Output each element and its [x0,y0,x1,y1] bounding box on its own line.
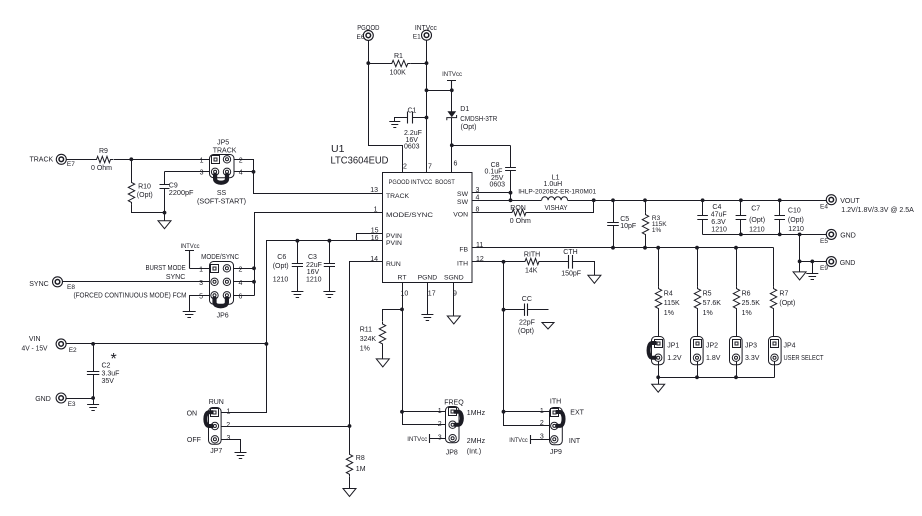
resistor R10 (Opt) [131,160,133,181]
wire VIN line [67,343,267,345]
capacitor C5 10pF [613,201,615,223]
svg-text:6: 6 [239,293,243,300]
connector JP5 TRACK 2x2 header [210,155,235,178]
junction RUN-R8-JP7 [348,424,352,428]
svg-text:D1: D1 [460,106,469,113]
svg-text:2: 2 [239,266,243,273]
svg-text:1.0uH: 1.0uH [544,181,563,188]
junction R10-C9-gnd [163,211,167,215]
wire JP5 pin2/pin4 to TRACK pin13 [235,160,383,194]
junction tap-D1 [450,88,454,92]
svg-text:SS: SS [217,190,227,197]
svg-text:PGOOD: PGOOD [357,25,379,32]
svg-text:R8: R8 [356,455,365,462]
svg-text:47uF: 47uF [711,211,727,218]
junction VOUT-C4 [701,198,705,202]
svg-text:SYNC: SYNC [166,274,185,281]
svg-text:2MHz: 2MHz [467,438,486,445]
ground triangle at SGND [447,316,460,324]
svg-text:USER SELECT: USER SELECT [784,355,825,362]
svg-text:6.3V: 6.3V [711,219,726,226]
junction VOUT-C7 [739,198,743,202]
resistor R11 324K [383,310,403,322]
turret E8 SYNC [53,277,63,287]
svg-text:1210: 1210 [711,227,727,234]
power tap INTVcc top [447,81,456,91]
wire E8 to JP6 pin3 [63,281,210,283]
svg-text:2: 2 [226,422,230,429]
wire JP1 pin2 to gnd rail [658,362,660,378]
JP6 pin6 wire [234,295,255,297]
svg-text:JP2: JP2 [706,343,718,350]
svg-text:PVIN: PVIN [386,233,402,240]
junction gnd rail C7 [739,233,743,237]
svg-text:INT: INT [569,438,581,445]
svg-text:RT: RT [398,275,407,282]
wire D1 node to C8 [452,145,511,147]
svg-text:324K: 324K [360,336,377,343]
wire E7 to R9 [67,159,95,161]
ground earth below C3 [323,292,335,298]
svg-text:VIN: VIN [29,336,41,343]
junction RT-JP8 [400,410,404,414]
wire PVIN rail [267,241,383,344]
svg-text:1210: 1210 [273,276,289,283]
JP6 shunt jumper on pins 5-6 [215,297,227,306]
resistor R1 100K [369,63,390,65]
svg-text:E6: E6 [357,34,365,41]
resistor R3 115K [645,201,647,213]
svg-text:FB: FB [459,246,468,253]
ground triangle after CC [542,323,554,330]
svg-text:E3: E3 [68,401,76,408]
wire output cap ground rail to E5 [703,234,827,236]
svg-text:(Opt): (Opt) [273,263,289,270]
svg-text:C6: C6 [277,254,286,261]
svg-text:4: 4 [239,280,243,287]
wire FB U1 pin11 rail [473,247,774,249]
ground triangle below R8 [343,489,356,497]
svg-text:R4: R4 [664,291,673,298]
junction FB-R4 [656,246,660,250]
svg-text:CMDSH-3TR: CMDSH-3TR [460,116,497,123]
junction jgnd JP1 [656,375,660,379]
junction L1-VON riser [592,198,596,202]
svg-text:0603: 0603 [404,144,420,151]
junction INTVCC-tap [425,88,429,92]
wire JP7 pin2 to RUN net [222,426,350,428]
svg-text:SW: SW [457,199,469,206]
svg-text:INTVcc: INTVcc [442,71,463,78]
svg-text:16V: 16V [307,269,320,276]
wire PGOOD net down to U1 pin2 [369,64,403,173]
ground triangle after CTH [588,275,601,283]
ground triangle below output rail [799,262,801,272]
svg-text:TRACK: TRACK [213,147,237,154]
svg-text:VON: VON [453,212,468,219]
svg-text:MODE/SYNC: MODE/SYNC [201,254,239,261]
wire JP2 pin2 to gnd rail [697,362,699,378]
svg-text:17: 17 [428,290,436,297]
svg-text:14K: 14K [525,268,538,275]
junction E3-C2 [91,396,95,400]
junction jgnd JP2 [695,375,699,379]
svg-text:35V: 35V [102,378,115,385]
JP1 shunt jumper [649,343,657,358]
svg-text:(Opt): (Opt) [461,124,477,131]
svg-text:3: 3 [540,434,544,441]
svg-text:SW: SW [457,191,469,198]
resistor R7 (Opt) [773,248,775,287]
ground earth below C6 [291,292,303,298]
svg-text:(Opt): (Opt) [788,217,804,224]
svg-text:3: 3 [438,435,442,442]
ground triangle below R10/C9 [164,213,166,221]
svg-text:(Int.): (Int.) [467,448,481,455]
svg-text:C5: C5 [620,216,629,223]
svg-text:1.2V: 1.2V [667,355,682,362]
svg-text:JP5: JP5 [217,140,229,147]
svg-text:CTH: CTH [563,249,577,256]
svg-text:CC: CC [522,296,532,303]
ground earth at C1 [389,122,400,128]
svg-text:(SOFT-START): (SOFT-START) [197,198,246,205]
connector JP4 USER SELECT header [769,337,782,365]
ground earth below C2 [93,399,95,405]
wire jumper ground rail [659,377,775,379]
svg-text:150pF: 150pF [561,271,581,278]
capacitor C3 22uF [329,241,331,264]
junction C5-FB rail [611,246,615,250]
junction jgnd JP3 [734,375,738,379]
turret E2 VIN [56,339,66,349]
wire PVIN pin15 jog [357,234,383,241]
svg-text:E8: E8 [67,284,75,291]
junction C8-SW3 [509,191,513,195]
svg-text:VISHAY: VISHAY [545,205,568,212]
svg-text:1%: 1% [652,227,662,234]
ground earth below E9 wire [812,262,814,274]
svg-text:PGOOD: PGOOD [389,179,410,186]
svg-text:C1: C1 [408,107,417,114]
junction D1-BOOST-C8 [450,143,454,147]
resistor RITH 14K [523,258,542,264]
svg-text:R5: R5 [703,291,712,298]
svg-text:GND: GND [35,396,51,403]
wire E9 gnd branch [799,235,801,262]
junction PGOOD-R1 [366,61,370,65]
svg-text:JP9: JP9 [550,449,562,456]
svg-text:GND: GND [840,233,856,240]
wire JP9 pin1 [504,411,551,413]
svg-text:JP7: JP7 [210,448,222,455]
svg-text:C10: C10 [788,207,801,214]
svg-text:4V - 15V: 4V - 15V [22,345,48,352]
svg-text:E7: E7 [67,161,75,168]
wire SGND U1 pin9 [453,283,455,317]
svg-text:E9: E9 [820,265,828,272]
resistor R4 115K [658,248,660,287]
connector JP6 MODE/SYNC 2x3 header [210,262,234,305]
JP5 shunt jumper on pins 3-4 [215,174,227,183]
svg-text:C7: C7 [751,206,760,213]
connector JP1 1.2V header [652,337,665,365]
wire JP7 pin3 to ground [222,440,241,453]
JP6 pin4 wire [234,281,255,283]
JP7 body and pins [209,408,222,445]
wire RT U1 pin10 down [402,283,404,412]
junction R3-FB rail [643,246,647,250]
svg-text:U1: U1 [331,143,345,155]
junction ITH-JP9 [502,410,506,414]
svg-text:1: 1 [199,266,203,273]
svg-text:E4: E4 [820,204,828,211]
wire RON to output node [529,201,594,213]
svg-text:1%: 1% [360,345,370,352]
junction JP6 pin2 [252,266,256,270]
wire SW pin3 [473,192,511,194]
svg-text:1210: 1210 [306,276,322,283]
svg-text:C9: C9 [169,182,178,189]
svg-text:C2: C2 [102,363,111,370]
capacitor CC 22pF (Opt) [504,309,525,311]
ground earth at JP7 pin3 [235,453,247,459]
wire JP7 pin1 to VIN riser [222,344,267,413]
svg-text:TRACK: TRACK [29,157,53,164]
junction VOUT-R3 [643,198,647,202]
ground earth at PGND [421,315,433,321]
svg-text:3: 3 [199,280,203,287]
svg-text:BURST MODE: BURST MODE [146,265,186,272]
JP7 shunt jumper pins 1-2 left [205,412,213,426]
svg-text:E2: E2 [69,347,77,354]
svg-text:VOUT: VOUT [840,198,860,205]
svg-text:(Opt): (Opt) [518,328,534,335]
svg-text:JP1: JP1 [667,343,679,350]
ground triangle below jumper rail [658,378,660,385]
svg-text:10pF: 10pF [620,223,636,230]
svg-text:INTVcc: INTVcc [181,243,201,250]
svg-text:C4: C4 [712,204,721,211]
svg-text:INTVCC: INTVCC [411,179,433,186]
turret E7 TRACK [56,154,66,164]
junction gnd rail E9 riser [798,233,802,237]
capacitor C8 0.1uF [510,146,512,168]
svg-text:1M: 1M [356,466,366,473]
svg-text:(Opt): (Opt) [749,217,765,224]
wire VON U1 pin8 to RON [473,212,510,214]
junction VIN-C2 [91,342,95,346]
capacitor C2 3.3uF [93,344,95,372]
connector JP8 FREQ 1x3 header [446,407,460,443]
svg-text:1%: 1% [664,310,674,317]
wire ITH riser down to CC [503,262,505,412]
turret E1 INTVcc [422,30,432,40]
svg-text:1: 1 [227,408,231,415]
wire JP4 pin2 to gnd rail [774,362,776,378]
svg-text:ON: ON [187,410,198,417]
svg-text:BOOST: BOOST [435,179,455,186]
svg-text:1210: 1210 [749,226,765,233]
svg-text:1.2V/1.8V/3.3V @ 2.5A: 1.2V/1.8V/3.3V @ 2.5A [841,207,914,214]
resistor R9 0 Ohm [94,156,113,162]
svg-text:1: 1 [438,408,442,415]
turret E5 GND [826,229,836,239]
resistor R8 1M [346,452,352,476]
wire CTH to ground [573,262,595,276]
wire JP8 pin2 loop [403,412,446,425]
svg-text:0 Ohm: 0 Ohm [91,165,112,172]
svg-text:1%: 1% [703,310,713,317]
svg-text:GND: GND [840,260,856,267]
op-amp U1 LTC3604EUD IC body [383,173,473,283]
svg-text:EXT: EXT [570,410,584,417]
svg-text:10: 10 [401,290,409,297]
connector JP3 3.3V header [730,337,743,365]
wire MODE/SYNC U1 pin1 to JP6 riser [255,213,383,296]
wire JP8 pin1 [403,411,446,413]
svg-text:2200pF: 2200pF [169,190,194,197]
capacitor C4 [702,201,704,216]
resistor R5 57.6K [697,248,699,287]
wire E3 to C2 bottom [67,398,94,400]
capacitor C6 (Opt) [297,241,299,264]
svg-text:22pF: 22pF [519,319,535,326]
svg-text:(Opt): (Opt) [779,300,795,307]
wire E1 to U1 pin7 INTVCC vertical [426,41,428,173]
wire R9 to JP5 pin1 [114,159,210,161]
svg-text:(Opt): (Opt) [137,192,153,199]
resistor RON 0 Ohm [510,209,529,215]
diode D1 CMDSH-3TR [451,91,453,112]
svg-text:3.3uF: 3.3uF [102,370,120,377]
svg-text:2: 2 [438,421,442,428]
wire INTVcc tap row [427,90,452,92]
wire SW pin4 to L1 [473,200,542,202]
svg-text:PVIN: PVIN [386,240,402,247]
wire JP6 pin1 to INTVcc tap [190,268,210,270]
svg-text:1MHz: 1MHz [467,410,486,417]
wire JP9 pin2 loop [504,412,551,426]
svg-text:R7: R7 [779,291,788,298]
svg-text:3.3V: 3.3V [745,355,760,362]
capacitor CTH 150pF [569,255,573,269]
svg-text:3: 3 [200,170,204,177]
JP9 shunt jumper pins 1-2 right [556,412,564,426]
svg-text:5: 5 [199,293,203,300]
svg-text:57.6K: 57.6K [703,300,722,307]
resistor R6 25.5K [736,248,738,287]
svg-text:22uF: 22uF [306,262,322,269]
junction PVIN-C6 [296,239,300,243]
svg-text:R1: R1 [394,53,403,60]
svg-text:0 Ohm: 0 Ohm [510,218,531,225]
junction R1-INTVCC [425,61,429,65]
wire RUN U1 pin14 to JP7 riser [350,262,383,427]
svg-text:R10: R10 [138,184,151,191]
svg-text:RON: RON [510,205,526,212]
svg-text:PGND: PGND [418,275,438,282]
junction JP6 pin4 [252,280,256,284]
junction FB-R5 [695,246,699,250]
wire JP3 pin2 to gnd rail [736,362,738,378]
wire BOOST pin6 stub [451,146,453,173]
svg-text:1: 1 [200,157,204,164]
wire E6 to R1 node [368,41,370,64]
junction VOUT-C10 [778,198,782,202]
turret E4 VOUT [826,195,836,205]
svg-text:INTVcc: INTVcc [509,437,528,444]
svg-text:SYNC: SYNC [29,281,48,288]
svg-text:1210: 1210 [788,226,804,233]
junction VIN-JP7riser [265,342,269,346]
svg-text:115K: 115K [664,300,680,307]
svg-text:LTC3604EUD: LTC3604EUD [331,155,389,167]
junction E9 branch earth [810,260,814,264]
junction PVIN-C3 [328,239,332,243]
svg-text:7: 7 [428,164,432,171]
svg-text:JP3: JP3 [745,343,757,350]
wire PGND U1 pin17 [427,283,429,315]
svg-text:C3: C3 [308,254,317,261]
junction ITH-CC riser [502,260,506,264]
junction RT-R11 [400,308,404,312]
capacitor C9 2200pF [164,172,166,185]
svg-text:ITH: ITH [550,399,561,406]
wire L1 to VOUT turret E4 [568,200,827,202]
svg-text:MODE/SYNC: MODE/SYNC [386,212,433,219]
connector JP9 ITH 1x3 header [550,408,563,445]
turret E3 GND [56,393,66,403]
JP6 pin2 wire [234,268,255,270]
junction VOUT-C5 [611,198,615,202]
junction C1-INTVCC [425,116,429,120]
svg-text:3: 3 [227,435,231,442]
svg-text:R6: R6 [742,291,751,298]
svg-text:2: 2 [403,164,407,171]
svg-text:SGND: SGND [444,275,464,282]
connector JP2 1.8V header [691,337,704,365]
junction gnd rail C10 [778,233,782,237]
svg-text:1: 1 [540,408,544,415]
junction CC [502,308,506,312]
svg-text:(FORCED CONTINUOUS MODE) FCM: (FORCED CONTINUOUS MODE) FCM [74,292,187,299]
turret E9 GND [826,257,836,267]
wire ITH U1 pin12 [473,261,523,263]
svg-text:4: 4 [239,170,243,177]
capacitor C7 [740,201,742,216]
ground earth at JP6 pin5 [183,312,196,318]
svg-text:1.8V: 1.8V [706,355,721,362]
svg-text:JP6: JP6 [217,312,229,319]
junction E9 branch left [798,260,802,264]
wire SW3 to SW4 tie [510,193,512,201]
svg-text:1%: 1% [742,310,752,317]
svg-text:INTVcc: INTVcc [415,25,437,32]
svg-text:2: 2 [540,420,544,427]
junction FB-R6 [734,246,738,250]
svg-text:JP4: JP4 [784,343,796,350]
svg-text:INTVcc: INTVcc [407,436,428,443]
svg-text:E1: E1 [413,34,421,41]
svg-text:100K: 100K [390,70,407,77]
capacitor C1 2.2uF [408,112,413,124]
ground triangle below R11 [376,359,389,367]
wire JP5 pin3 to C9 [165,171,210,173]
svg-text:OFF: OFF [187,437,201,444]
junction C8-SW4 [509,198,513,202]
svg-text:E5: E5 [820,238,828,245]
